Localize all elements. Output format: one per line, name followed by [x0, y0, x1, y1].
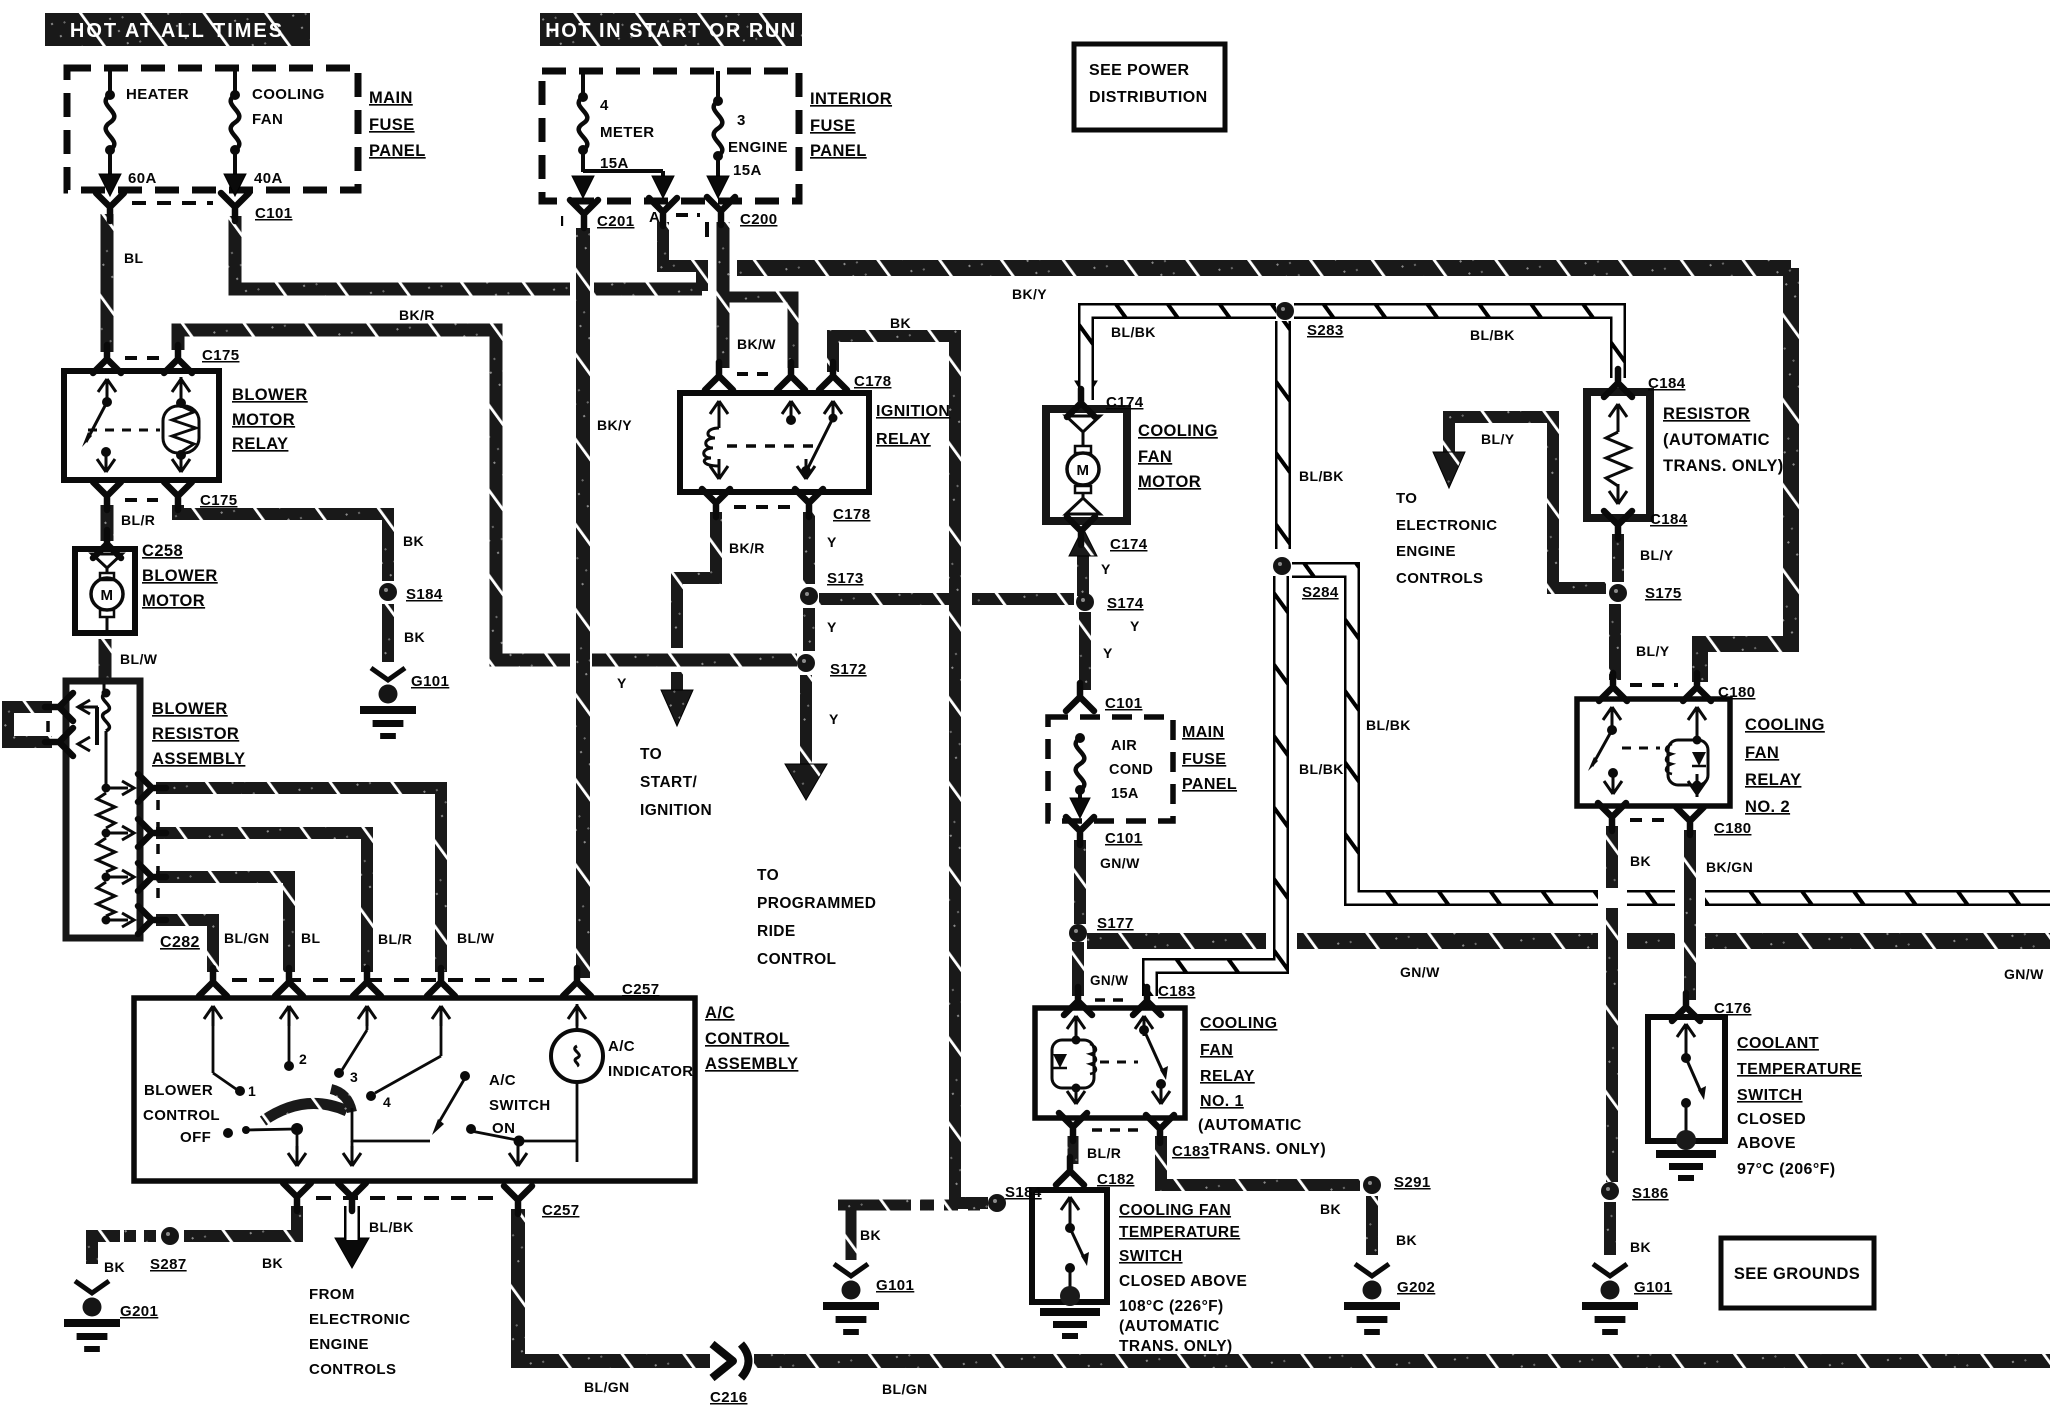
wire BL/BK S284 elbow right	[1292, 570, 2050, 898]
label GN/W right	[2004, 966, 2044, 982]
svg-text:BL/Y: BL/Y	[1640, 547, 1674, 563]
wire BL/R to C182	[1068, 1136, 1079, 1164]
wire GN/W horizontal	[1087, 933, 2050, 949]
svg-text:C257: C257	[622, 981, 659, 998]
connector C180 top pins	[1599, 673, 1711, 701]
label C182	[1097, 1171, 1134, 1188]
splice S283	[1276, 302, 1294, 320]
splice S284	[1273, 557, 1291, 575]
svg-text:BK: BK	[262, 1255, 283, 1271]
svg-text:TEMPERATURE: TEMPERATURE	[1737, 1061, 1862, 1078]
label 40A	[254, 170, 283, 187]
svg-text:S184: S184	[1005, 1184, 1042, 1201]
svg-text:60A: 60A	[128, 170, 157, 187]
svg-text:G101: G101	[411, 673, 449, 690]
label BL/BK elbow	[1366, 717, 1411, 733]
svg-text:NO. 2: NO. 2	[1745, 798, 1790, 816]
label BK/Y	[1012, 286, 1047, 302]
connector C174 top	[1067, 389, 1095, 417]
wire BK/GN below relay2	[1684, 830, 1696, 1000]
svg-text:1: 1	[248, 1083, 256, 1099]
wire BK to G201	[92, 1236, 120, 1264]
svg-text:ENGINE: ENGINE	[728, 139, 788, 156]
arrow to electronic engine controls	[1433, 452, 1465, 488]
C178 top dashed	[737, 372, 775, 376]
svg-text:3: 3	[737, 112, 746, 129]
wire Y S173 to S174	[819, 593, 1074, 605]
svg-text:ABOVE: ABOVE	[1737, 1135, 1796, 1152]
wire GN/W to S177	[1074, 840, 1086, 924]
label BK/R ignition	[729, 540, 765, 556]
svg-text:ON: ON	[492, 1120, 515, 1137]
svg-text:C178: C178	[833, 506, 870, 523]
main fuse panel box	[67, 68, 358, 190]
wire BL/W	[99, 639, 112, 681]
ground G201	[64, 1281, 120, 1352]
svg-text:PANEL: PANEL	[810, 142, 867, 160]
connector C176	[1672, 993, 1700, 1021]
svg-text:BL: BL	[301, 930, 321, 946]
wire BL/BK from EEC	[344, 1206, 360, 1240]
svg-text:2: 2	[299, 1051, 307, 1067]
svg-text:Y: Y	[829, 711, 839, 727]
resistor output dashed line	[156, 800, 160, 910]
resistor auto trans element	[1606, 404, 1630, 504]
svg-text:BL/BK: BL/BK	[1111, 324, 1156, 340]
svg-text:C175: C175	[200, 492, 237, 509]
resistor auto trans box	[1587, 392, 1650, 518]
C178 bottom dashed	[734, 505, 791, 509]
label GN/W mid	[1400, 964, 1440, 980]
svg-text:C174: C174	[1110, 536, 1148, 553]
blower control wiper arc	[263, 1089, 352, 1121]
svg-text:RESISTOR: RESISTOR	[152, 725, 239, 743]
wire BK/W	[717, 222, 730, 368]
wire BL/R	[101, 505, 114, 541]
dash between A and C200	[676, 215, 707, 237]
label 4 METER 15A	[600, 97, 655, 172]
label COOLANT TEMPERATURE SWITCH	[1737, 1035, 1862, 1178]
C175 bottom dashed	[125, 498, 158, 502]
ignition relay dashed link	[727, 444, 813, 448]
label BL/BK lower	[1299, 761, 1344, 777]
header HOT AT ALL TIMES	[45, 13, 310, 46]
wire BL/BK cooling fan motor	[1086, 311, 1276, 400]
svg-text:C282: C282	[160, 934, 200, 951]
svg-text:3: 3	[350, 1069, 358, 1085]
relay no2 dashed link	[1622, 747, 1660, 750]
label S284	[1302, 584, 1339, 601]
label HEATER	[126, 86, 189, 103]
splice S287	[161, 1227, 179, 1245]
connector C174 bottom	[1067, 517, 1095, 545]
svg-text:40A: 40A	[254, 170, 283, 187]
svg-text:BK: BK	[104, 1259, 125, 1275]
svg-text:Y: Y	[1103, 645, 1113, 661]
wire BL/GN resistor out4	[156, 920, 213, 972]
C257 top dashed	[232, 978, 556, 982]
svg-text:COOLING: COOLING	[1745, 716, 1825, 734]
wire BL/BK S284 to C183	[1150, 576, 1281, 996]
svg-text:PANEL: PANEL	[1182, 776, 1237, 793]
connector C200 pin	[707, 197, 735, 225]
label C180 top	[1718, 684, 1755, 701]
svg-text:BL/R: BL/R	[378, 931, 412, 947]
coolant temperature switch box	[1648, 1017, 1725, 1141]
connector C178 top pins	[705, 362, 847, 390]
label 3 ENGINE 15A	[728, 112, 788, 179]
svg-text:C184: C184	[1650, 511, 1688, 528]
blower motor symbol M	[91, 554, 123, 631]
wire BL/Y to EEC	[1449, 417, 1606, 588]
svg-text:C257: C257	[542, 1202, 579, 1219]
svg-text:BLOWER: BLOWER	[232, 386, 308, 404]
svg-text:CONTROL: CONTROL	[705, 1030, 789, 1048]
svg-text:M: M	[1077, 462, 1090, 479]
relay no1 dashed link	[1100, 1061, 1138, 1064]
svg-text:C182: C182	[1097, 1171, 1134, 1188]
svg-text:METER: METER	[600, 124, 655, 141]
svg-text:Y: Y	[827, 534, 837, 550]
svg-text:I: I	[560, 213, 565, 230]
splice S291	[1363, 1176, 1381, 1194]
wire BK from relay to S184	[178, 505, 388, 581]
relay no2 coil diode	[1666, 707, 1708, 797]
svg-text:RELAY: RELAY	[232, 435, 288, 453]
connector C257 top pins	[199, 968, 591, 996]
svg-text:C101: C101	[1105, 830, 1142, 847]
label MAIN FUSE PANEL right	[1182, 724, 1237, 793]
label BK below S184	[404, 629, 425, 645]
label S177	[1097, 915, 1134, 932]
A/C switch	[343, 1071, 577, 1166]
label BL/GN out	[224, 930, 270, 946]
label A/C SWITCH ON	[489, 1072, 551, 1137]
connector C182 C183 pins	[1059, 1113, 1174, 1143]
label S283	[1307, 322, 1344, 339]
svg-text:MAIN: MAIN	[369, 89, 413, 107]
label BL/BK motor	[1111, 324, 1156, 340]
label S172	[830, 661, 867, 678]
label BL/W out	[457, 930, 495, 946]
svg-text:TRANS. ONLY): TRANS. ONLY)	[1663, 457, 1784, 475]
arrowhead into C174	[1075, 381, 1097, 399]
connector C101 air cond bottom	[1066, 817, 1094, 845]
label S184	[406, 586, 443, 603]
svg-text:INTERIOR: INTERIOR	[810, 90, 892, 108]
svg-text:Y: Y	[617, 675, 627, 691]
svg-text:RIDE: RIDE	[757, 923, 796, 940]
connector C182	[1056, 1157, 1084, 1185]
svg-text:IGNITION: IGNITION	[876, 403, 950, 420]
svg-text:BL/Y: BL/Y	[1636, 643, 1670, 659]
header HOT IN START OR RUN	[540, 13, 802, 46]
label BL/GN left	[584, 1379, 630, 1395]
svg-text:FAN: FAN	[1138, 448, 1172, 466]
label G101 middle	[876, 1277, 914, 1294]
svg-text:BK/Y: BK/Y	[597, 417, 632, 433]
label S175	[1645, 585, 1682, 602]
svg-text:C101: C101	[1105, 695, 1142, 712]
svg-text:DISTRIBUTION: DISTRIBUTION	[1089, 89, 1208, 106]
label A/C CONTROL ASSEMBLY	[705, 1004, 798, 1073]
splice S175	[1609, 584, 1627, 602]
label GN/W lower	[1090, 973, 1128, 988]
svg-text:S184: S184	[406, 586, 443, 603]
label BL/BK upper	[1299, 468, 1344, 484]
label C216	[710, 1389, 747, 1406]
svg-text:Y: Y	[1130, 618, 1140, 634]
air cond fuse panel box	[1048, 717, 1173, 821]
splice S173	[800, 587, 818, 605]
label BL/R	[121, 512, 155, 528]
fuse COOLING FAN 40A	[224, 68, 246, 196]
cooling fan relay no1 box	[1035, 1008, 1185, 1118]
ground G101 left	[360, 668, 416, 739]
relay no1 switch	[1135, 1016, 1170, 1104]
blower motor relay switch	[82, 379, 116, 472]
svg-text:SWITCH: SWITCH	[489, 1097, 551, 1114]
svg-text:BL/R: BL/R	[1087, 1145, 1121, 1161]
label 60A	[128, 170, 157, 187]
label COOLING FAN RELAY NO 2	[1745, 716, 1825, 816]
svg-text:C176: C176	[1714, 1000, 1751, 1017]
label I	[560, 213, 565, 230]
svg-text:C175: C175	[202, 347, 239, 364]
svg-text:NO. 1: NO. 1	[1200, 1093, 1244, 1110]
svg-text:HEATER: HEATER	[126, 86, 189, 103]
wire BK to G101 middle	[838, 1205, 911, 1260]
label BL out	[301, 930, 321, 946]
svg-text:S291: S291	[1394, 1174, 1431, 1191]
svg-text:C180: C180	[1718, 684, 1755, 701]
label C178 top	[854, 373, 891, 390]
label C282	[160, 934, 200, 951]
fuse 4 METER 15A	[572, 71, 674, 198]
svg-text:BK/R: BK/R	[399, 307, 435, 323]
svg-text:FAN: FAN	[252, 111, 283, 128]
svg-text:ENGINE: ENGINE	[1396, 543, 1456, 560]
svg-text:SWITCH: SWITCH	[1119, 1248, 1183, 1265]
svg-text:BL: BL	[124, 250, 144, 266]
svg-text:15A: 15A	[733, 162, 762, 179]
svg-text:S173: S173	[827, 570, 864, 587]
ground G202	[1344, 1264, 1400, 1335]
svg-text:C178: C178	[854, 373, 891, 390]
fuse 3 ENGINE 15A	[707, 71, 729, 198]
label BL/W	[120, 651, 158, 667]
label C175 bottom	[200, 492, 237, 509]
wire BL/Y S175 to C180	[1609, 604, 1621, 680]
blower motor relay coil	[163, 377, 199, 472]
splice S184 lower	[988, 1194, 1006, 1212]
svg-text:COOLING FAN: COOLING FAN	[1119, 1202, 1231, 1219]
label COOLING FAN MOTOR	[1138, 422, 1218, 491]
cooling fan motor symbol	[1066, 416, 1100, 514]
svg-text:BK: BK	[1630, 1239, 1651, 1255]
label BLOWER CONTROL OFF	[143, 1082, 220, 1146]
wire BL resistor out3	[156, 877, 289, 972]
connector C216 inline	[712, 1344, 749, 1378]
label BK above S184	[403, 533, 424, 549]
label C176	[1714, 1000, 1751, 1017]
svg-text:CLOSED ABOVE: CLOSED ABOVE	[1119, 1273, 1247, 1290]
label BL/BK bottom	[369, 1219, 414, 1235]
relay box blower motor relay	[64, 371, 219, 480]
svg-text:S175: S175	[1645, 585, 1682, 602]
label BL/R relay1	[1087, 1145, 1121, 1161]
svg-text:A: A	[649, 209, 660, 226]
svg-text:BK: BK	[403, 533, 424, 549]
svg-text:CONTROLS: CONTROLS	[1396, 570, 1483, 587]
wire BK to G101	[382, 604, 394, 662]
svg-text:BL/BK: BL/BK	[1470, 327, 1515, 343]
svg-text:COOLING: COOLING	[1138, 422, 1218, 440]
connector C175 bottom pins	[93, 482, 192, 510]
svg-text:FUSE: FUSE	[810, 117, 856, 135]
label C200	[740, 211, 777, 228]
connector C258	[93, 530, 121, 558]
label Y below C174	[1101, 561, 1111, 577]
wire Y S174 to C101	[1079, 612, 1091, 690]
svg-text:BL/W: BL/W	[457, 930, 495, 946]
svg-text:BL/GN: BL/GN	[224, 930, 270, 946]
label C257 top	[622, 981, 659, 998]
connector C101 pins	[96, 193, 249, 221]
coolant temp switch element	[1676, 1024, 1706, 1150]
connector C184 bottom	[1604, 511, 1632, 539]
connector C180 bottom pins	[1598, 803, 1704, 835]
wire BL/R resistor out2	[156, 833, 367, 972]
svg-text:C201: C201	[597, 213, 634, 230]
label Y under S173 wire	[1130, 618, 1140, 634]
label G202	[1397, 1279, 1435, 1296]
svg-text:CONTROLS: CONTROLS	[309, 1361, 396, 1378]
svg-text:BL/GN: BL/GN	[584, 1379, 630, 1395]
label S173	[827, 570, 864, 587]
svg-text:ASSEMBLY: ASSEMBLY	[705, 1055, 798, 1073]
connector C101 dashed line	[132, 201, 213, 205]
svg-text:S186: S186	[1632, 1185, 1669, 1202]
svg-text:BLOWER: BLOWER	[144, 1082, 213, 1099]
wire Y below C178	[803, 512, 815, 584]
label G101 right	[1634, 1279, 1672, 1296]
splice S174	[1076, 593, 1094, 611]
A/C control assembly box	[134, 998, 695, 1181]
fuse AIR COND 15A	[1070, 733, 1090, 818]
C175 top dashed	[125, 356, 160, 360]
svg-text:BL/BK: BL/BK	[369, 1219, 414, 1235]
svg-text:COOLING: COOLING	[1200, 1015, 1277, 1032]
svg-text:SEE GROUNDS: SEE GROUNDS	[1734, 1265, 1860, 1283]
splice S172	[797, 654, 815, 672]
label S291	[1394, 1174, 1431, 1191]
label BK left	[104, 1259, 125, 1275]
wire BK/Y long horizontal	[737, 268, 1791, 682]
ground coolant temp switch	[1656, 1150, 1716, 1181]
interior fuse panel box	[542, 71, 799, 201]
svg-text:RESISTOR: RESISTOR	[1663, 405, 1750, 423]
label G201	[120, 1303, 158, 1320]
connector C257 bottom pins	[283, 1183, 532, 1214]
svg-text:ELECTRONIC: ELECTRONIC	[309, 1311, 411, 1328]
arrow from electronic engine controls	[335, 1238, 369, 1268]
label C175 top	[202, 347, 239, 364]
C180 top dashed	[1630, 683, 1678, 687]
svg-text:CONTROL: CONTROL	[143, 1107, 220, 1124]
resistor output pins	[138, 774, 166, 934]
svg-text:FAN: FAN	[1745, 744, 1779, 762]
svg-text:RELAY: RELAY	[1200, 1068, 1255, 1085]
svg-text:BL/BK: BL/BK	[1299, 468, 1344, 484]
label BK/GN	[1706, 859, 1753, 875]
ground G101 middle	[823, 1264, 879, 1335]
svg-text:(AUTOMATIC: (AUTOMATIC	[1663, 431, 1770, 449]
wire BL/Y C184 to S175	[1612, 534, 1624, 582]
svg-text:GN/W: GN/W	[1090, 973, 1128, 988]
label BL/BK to C184	[1470, 327, 1515, 343]
label BL/GN right	[882, 1381, 928, 1397]
svg-text:START/: START/	[640, 774, 698, 791]
label BK right G101	[1630, 1239, 1651, 1255]
svg-text:OFF: OFF	[180, 1129, 211, 1146]
label BK relay1	[1320, 1201, 1341, 1217]
svg-text:C174: C174	[1106, 394, 1144, 411]
connector C183 pins	[1064, 987, 1161, 1015]
note box SEE GROUNDS	[1721, 1238, 1874, 1308]
svg-text:PROGRAMMED: PROGRAMMED	[757, 895, 876, 912]
connector C178 bottom pins	[702, 489, 823, 517]
svg-text:ASSEMBLY: ASSEMBLY	[152, 750, 245, 768]
wire Y from C175 to S172	[178, 330, 797, 660]
label Y below S174	[1103, 645, 1113, 661]
svg-text:BL/W: BL/W	[120, 651, 158, 667]
ignition relay box	[680, 393, 869, 492]
svg-text:BK/GN: BK/GN	[1706, 859, 1753, 875]
splice S184	[379, 583, 397, 601]
svg-text:C200: C200	[740, 211, 777, 228]
label Y below S172	[829, 711, 839, 727]
svg-text:HOT AT ALL TIMES: HOT AT ALL TIMES	[70, 20, 284, 42]
svg-text:BK: BK	[1630, 853, 1651, 869]
svg-text:FUSE: FUSE	[369, 116, 415, 134]
label BL	[124, 250, 144, 266]
A/C indicator lamp	[551, 1004, 603, 1082]
label COOLING FAN TEMPERATURE SWITCH	[1119, 1202, 1247, 1355]
svg-text:BK/W: BK/W	[737, 336, 776, 352]
wire BL/GN bottom left	[518, 1209, 710, 1361]
label S186	[1632, 1185, 1669, 1202]
label G101 left	[411, 673, 449, 690]
label Y near S172 wire	[617, 675, 627, 691]
svg-text:COOLANT: COOLANT	[1737, 1035, 1819, 1052]
relay no2 switch	[1588, 707, 1622, 794]
label BK/Y left	[597, 417, 632, 433]
svg-text:BLOWER: BLOWER	[142, 567, 218, 585]
label AIR COND 15A	[1109, 738, 1153, 802]
connector C184 top	[1604, 369, 1632, 397]
label MAIN FUSE PANEL	[369, 89, 426, 160]
svg-text:A/C: A/C	[489, 1072, 516, 1089]
svg-text:ELECTRONIC: ELECTRONIC	[1396, 517, 1498, 534]
wire Y S173 to S172	[803, 608, 815, 651]
label FROM ELECTRONIC ENGINE CONTROLS	[309, 1286, 411, 1378]
svg-text:BK: BK	[860, 1227, 881, 1243]
svg-text:A/C: A/C	[705, 1004, 735, 1022]
label C101 air cond top	[1105, 695, 1142, 712]
svg-text:A/C: A/C	[608, 1038, 635, 1055]
svg-text:FUSE: FUSE	[1182, 751, 1226, 768]
